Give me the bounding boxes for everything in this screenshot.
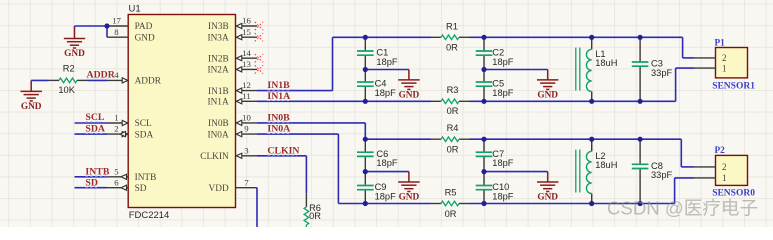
svg-text:IN1B: IN1B xyxy=(208,87,229,97)
connector P2 SENSOR0 xyxy=(694,146,755,198)
wire C7/C10 node to ground xyxy=(484,171,548,173)
svg-text:2: 2 xyxy=(722,162,727,172)
ground GND (R2) xyxy=(21,81,42,112)
wire SDA xyxy=(75,133,108,135)
wire IN1A rail R3 to corner xyxy=(470,100,676,102)
pin 11 IN1A (right) xyxy=(208,91,257,108)
svg-text:0R: 0R xyxy=(309,211,321,221)
wire C1/C4 node to ground xyxy=(365,69,409,71)
svg-text:14: 14 xyxy=(242,48,251,58)
svg-text:ADDR: ADDR xyxy=(135,77,162,87)
pin 15 IN3A (right) xyxy=(208,27,257,44)
pin 4 ADDR (left) xyxy=(107,70,162,87)
junction dots top channel xyxy=(363,35,643,104)
svg-text:7: 7 xyxy=(244,177,249,187)
resistor R4 0R xyxy=(431,123,470,154)
inductor L2 18uH xyxy=(576,139,618,203)
no-ERC marker pin 15 xyxy=(255,33,263,41)
no-ERC marker pin 13 xyxy=(255,65,263,73)
svg-text:GND: GND xyxy=(537,90,558,100)
wire R2 to ADDR pin xyxy=(88,79,108,81)
ground GND (top left) xyxy=(64,28,85,59)
pin 2 SDA (left) xyxy=(107,124,153,141)
resistor R3 0R xyxy=(431,85,470,116)
pin 17 PAD (left) xyxy=(107,16,153,33)
svg-text:9: 9 xyxy=(244,124,249,134)
svg-text:1: 1 xyxy=(722,63,727,73)
capacitor C3 33pF xyxy=(632,37,673,101)
svg-text:15: 15 xyxy=(242,27,251,37)
pin 6 SD (left) xyxy=(107,177,147,194)
wire P2 pin2 drop xyxy=(681,139,694,167)
wire IN0B to rail xyxy=(257,123,365,139)
svg-text:11: 11 xyxy=(242,91,250,101)
svg-text:16: 16 xyxy=(242,16,251,26)
svg-text:0R: 0R xyxy=(447,106,459,116)
svg-text:8: 8 xyxy=(114,27,119,37)
wire VDD xyxy=(256,188,258,227)
inductor L1 18uH xyxy=(576,37,618,101)
svg-text:GND: GND xyxy=(399,90,420,100)
pin 13 IN2A (right) xyxy=(208,59,257,76)
capacitor C6 18pF xyxy=(357,139,398,171)
svg-text:12: 12 xyxy=(242,80,251,90)
svg-text:18uH: 18uH xyxy=(595,58,617,68)
svg-text:33pF: 33pF xyxy=(651,170,673,180)
svg-text:GND: GND xyxy=(64,49,85,59)
resistor R6 0R (vertical) xyxy=(304,193,321,227)
svg-text:R2: R2 xyxy=(63,64,75,74)
wire C2/C5 node to ground xyxy=(484,69,548,71)
svg-text:6: 6 xyxy=(114,177,119,187)
svg-text:18uH: 18uH xyxy=(595,160,617,170)
capacitor C5 18pF xyxy=(476,70,514,102)
svg-text:P1: P1 xyxy=(715,38,726,48)
capacitor C9 18pF xyxy=(357,172,396,204)
svg-text:0R: 0R xyxy=(446,42,458,52)
wire GND to R2 xyxy=(31,79,48,82)
pin 9 IN0A (right) xyxy=(208,124,257,141)
svg-text:10K: 10K xyxy=(58,85,75,95)
svg-text:SENSOR1: SENSOR1 xyxy=(712,81,755,91)
svg-text:FDC2214: FDC2214 xyxy=(129,210,170,221)
svg-text:18pF: 18pF xyxy=(492,191,514,201)
svg-text:IN3B: IN3B xyxy=(208,22,229,32)
svg-text:IN3A: IN3A xyxy=(208,33,229,43)
pin 3 CLKIN (right) xyxy=(200,145,257,162)
wire bottom rail2 R5 to corner xyxy=(470,203,675,205)
svg-text:18pF: 18pF xyxy=(492,158,514,168)
svg-text:R5: R5 xyxy=(445,188,457,198)
svg-text:IN0B: IN0B xyxy=(208,119,229,129)
svg-text:18pF: 18pF xyxy=(375,191,397,201)
capacitor C8 33pF xyxy=(632,139,673,203)
svg-text:SD: SD xyxy=(135,184,147,194)
svg-text:P2: P2 xyxy=(715,146,726,156)
wire CLKIN xyxy=(257,156,306,194)
svg-text:GND: GND xyxy=(21,102,42,112)
pin 16 IN3B (right) xyxy=(208,16,257,33)
pin 7 VDD (right) xyxy=(209,177,257,194)
ground GND (C6-C9) xyxy=(398,172,419,203)
no-ERC marker pin 14 xyxy=(255,54,263,62)
svg-text:1: 1 xyxy=(722,173,727,183)
svg-text:5: 5 xyxy=(114,166,119,176)
ground GND (C1-C4) xyxy=(398,70,419,101)
wire bottom rail1 C6 to R4 xyxy=(365,138,430,140)
svg-text:IN2A: IN2A xyxy=(208,66,229,76)
svg-text:IN1A: IN1A xyxy=(208,98,229,108)
capacitor C10 18pF xyxy=(476,172,514,204)
svg-text:0R: 0R xyxy=(445,209,457,219)
wire C6/C9 node to ground xyxy=(365,171,409,173)
no-ERC marker pin 16 xyxy=(255,22,263,30)
svg-text:GND: GND xyxy=(135,33,155,43)
svg-text:IN2B: IN2B xyxy=(208,54,229,64)
capacitor C4 18pF xyxy=(357,70,396,102)
svg-text:CLKIN: CLKIN xyxy=(200,152,229,162)
svg-text:18pF: 18pF xyxy=(492,88,514,98)
svg-text:17: 17 xyxy=(112,16,121,26)
wire IN1A rail xyxy=(257,100,431,102)
resistor R5 0R xyxy=(431,188,470,219)
svg-text:2: 2 xyxy=(114,124,118,134)
wire bottom rail1 R4 to P2 xyxy=(470,138,682,140)
svg-text:R3: R3 xyxy=(447,85,459,95)
svg-text:SDA: SDA xyxy=(135,130,154,140)
op-amp U1 FDC2214 body xyxy=(128,15,235,208)
junction dots bottom channel xyxy=(363,137,643,207)
svg-text:IN0A: IN0A xyxy=(208,130,229,140)
wire top rail R1 to P1 xyxy=(470,36,683,38)
wire P2 pin1 riser xyxy=(675,178,694,204)
svg-text:1: 1 xyxy=(114,113,118,123)
svg-text:INTB: INTB xyxy=(135,173,157,183)
wire INTB xyxy=(75,176,108,178)
svg-text:R1: R1 xyxy=(446,21,458,31)
pin 8 GND (left) xyxy=(107,27,155,44)
svg-text:R4: R4 xyxy=(447,123,459,133)
pin 1 SCL (left) xyxy=(107,113,152,130)
svg-text:U1: U1 xyxy=(129,4,141,15)
wire P1 pin1 riser xyxy=(676,68,694,101)
wire IN0A riser xyxy=(257,134,431,203)
svg-text:VDD: VDD xyxy=(209,184,229,194)
wire SCL xyxy=(75,122,108,124)
resistor R1 0R xyxy=(431,21,470,52)
svg-text:10: 10 xyxy=(242,113,251,123)
svg-text:18pF: 18pF xyxy=(376,158,398,168)
svg-text:PAD: PAD xyxy=(135,22,153,32)
wire PAD/GND to ground xyxy=(75,26,108,37)
junction PAD/GND node xyxy=(104,23,109,28)
svg-text:18pF: 18pF xyxy=(492,57,514,67)
svg-text:13: 13 xyxy=(242,59,251,69)
svg-text:18pF: 18pF xyxy=(376,57,398,67)
wire IN1B riser and top rail xyxy=(257,37,431,90)
svg-text:GND: GND xyxy=(399,193,420,203)
svg-text:33pF: 33pF xyxy=(651,68,673,78)
pin 12 IN1B (right) xyxy=(208,80,257,97)
svg-text:0R: 0R xyxy=(447,144,459,154)
svg-text:3: 3 xyxy=(244,145,249,155)
wire SD xyxy=(75,187,108,189)
svg-text:18pF: 18pF xyxy=(375,88,397,98)
connector P1 SENSOR1 xyxy=(694,38,755,91)
capacitor C7 18pF xyxy=(476,139,514,171)
capacitor C2 18pF xyxy=(476,37,514,69)
svg-text:4: 4 xyxy=(114,70,119,80)
ground GND (C7-C10) xyxy=(537,172,558,203)
svg-text:GND: GND xyxy=(537,193,558,203)
svg-text:2: 2 xyxy=(722,53,727,63)
wire P1 pin2 drop xyxy=(683,37,694,58)
ground GND (C2-C5) xyxy=(537,70,558,101)
pin 14 IN2B (right) xyxy=(208,48,257,65)
resistor R2 10K xyxy=(49,64,88,96)
pin 10 IN0B (right) xyxy=(208,113,257,130)
capacitor C1 18pF xyxy=(357,37,398,69)
svg-text:CSDN @医疗电子: CSDN @医疗电子 xyxy=(607,198,758,219)
pin 5 INTB (left) xyxy=(107,166,156,183)
svg-text:SCL: SCL xyxy=(135,119,152,129)
